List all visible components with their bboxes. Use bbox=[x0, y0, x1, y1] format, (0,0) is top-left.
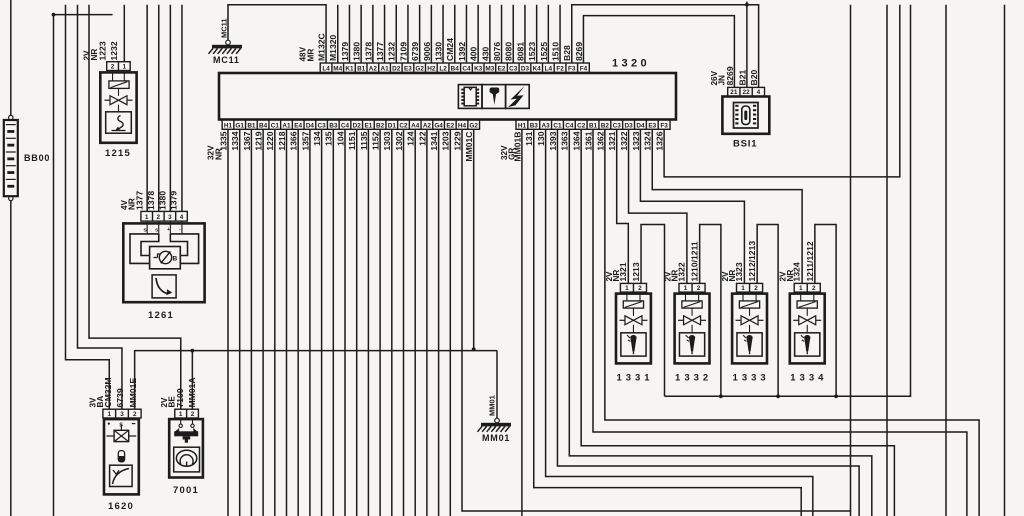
svg-text:2: 2 bbox=[157, 214, 161, 221]
svg-text:1362: 1362 bbox=[595, 131, 605, 150]
svg-text:1323: 1323 bbox=[631, 131, 641, 150]
svg-text:1332: 1332 bbox=[675, 373, 712, 384]
svg-text:7109: 7109 bbox=[398, 42, 408, 61]
svg-text:D3: D3 bbox=[624, 122, 633, 129]
wire 1378 (ECU top pin A2) bbox=[372, 5, 374, 63]
svg-text:1366: 1366 bbox=[289, 131, 299, 150]
svg-text:MM01: MM01 bbox=[488, 395, 497, 416]
svg-text:1: 1 bbox=[684, 285, 688, 292]
wire 6739 (ECU top pin G2) bbox=[419, 5, 421, 63]
svg-text:1357: 1357 bbox=[300, 131, 310, 150]
injector 1333 coil symbol bbox=[739, 301, 759, 308]
svg-text:C3: C3 bbox=[318, 122, 327, 129]
svg-text:1212/1213: 1212/1213 bbox=[747, 241, 757, 282]
svg-text:8269: 8269 bbox=[574, 42, 584, 61]
svg-text:B2: B2 bbox=[376, 122, 385, 129]
svg-text:1211/1212: 1211/1212 bbox=[805, 241, 815, 281]
svg-text:L4: L4 bbox=[545, 66, 553, 73]
svg-text:8269: 8269 bbox=[725, 66, 735, 85]
injector 1331 pin stubs bbox=[626, 292, 628, 301]
svg-text:B21: B21 bbox=[737, 70, 747, 86]
wire 6739 bus (to component 1620 pin 3) bbox=[78, 5, 122, 409]
svg-text:C1: C1 bbox=[271, 122, 280, 129]
svg-text:A2: A2 bbox=[423, 122, 432, 129]
svg-text:G1: G1 bbox=[235, 122, 244, 129]
1620 polarity marks bbox=[108, 423, 110, 425]
svg-text:400: 400 bbox=[469, 46, 479, 61]
svg-text:+: + bbox=[167, 227, 170, 233]
1215 solenoid inner box bbox=[106, 112, 132, 133]
svg-text:4: 4 bbox=[180, 214, 184, 221]
wire 8081 (ECU top pin D3) bbox=[524, 5, 526, 63]
wire bus right C (full height) bbox=[945, 5, 947, 516]
wire CM24 (ECU top pin B4) bbox=[454, 5, 456, 63]
svg-text:A1: A1 bbox=[282, 122, 291, 129]
svg-text:1377: 1377 bbox=[134, 191, 144, 210]
component 1261 connector pins 1 2 3 4 bbox=[141, 211, 187, 221]
svg-text:6739: 6739 bbox=[115, 388, 125, 407]
wire 1357 (to bottom page edge) bbox=[309, 129, 311, 516]
wire 1223 horizontal (bus to component 1215 pin 2) bbox=[54, 14, 113, 16]
svg-text:K1: K1 bbox=[345, 66, 354, 73]
1215 valve symbol bbox=[110, 96, 119, 105]
svg-text:CM24: CM24 bbox=[445, 38, 455, 61]
svg-text:B20: B20 bbox=[749, 70, 759, 86]
svg-text:E3: E3 bbox=[648, 122, 656, 129]
svg-text:M1320: M1320 bbox=[328, 35, 338, 61]
wire 8076 (ECU top pin E2) bbox=[501, 5, 503, 63]
svg-text:1380: 1380 bbox=[352, 42, 362, 61]
wire B28 (ECU pin F3 to BSI1 pins 22/4) bbox=[572, 5, 759, 88]
wire 430 (ECU top pin M3) bbox=[489, 5, 491, 63]
wire 1361 bbox=[593, 129, 967, 516]
wire 1334 (to bottom page edge) bbox=[239, 129, 241, 516]
svg-text:134: 134 bbox=[312, 131, 322, 146]
svg-text:1: 1 bbox=[799, 285, 803, 292]
7001 gauge icon bbox=[176, 450, 196, 466]
svg-text:1364: 1364 bbox=[572, 131, 582, 150]
svg-text:B2: B2 bbox=[601, 122, 610, 129]
svg-text:E3: E3 bbox=[404, 66, 412, 73]
svg-text:2: 2 bbox=[133, 411, 137, 418]
svg-text:2: 2 bbox=[638, 285, 642, 292]
injector 1333 pin stubs bbox=[742, 292, 744, 301]
wire 1203 (to bottom page edge) bbox=[449, 129, 451, 516]
1215 pin stubs bbox=[112, 71, 114, 81]
wire 1135 (to bottom page edge) bbox=[367, 129, 369, 516]
svg-text:B4: B4 bbox=[259, 122, 268, 129]
svg-text:E1: E1 bbox=[364, 122, 372, 129]
wire bus right D (full height) bbox=[1004, 5, 1006, 516]
injector 1333 nozzle spray icon bbox=[746, 335, 752, 351]
svg-text:1223: 1223 bbox=[97, 41, 107, 60]
svg-text:1302: 1302 bbox=[394, 131, 404, 150]
svg-text:7109: 7109 bbox=[175, 388, 185, 407]
svg-text:B: B bbox=[173, 256, 178, 263]
svg-text:E2: E2 bbox=[446, 122, 454, 129]
svg-text:F2: F2 bbox=[556, 66, 564, 73]
svg-text:22: 22 bbox=[743, 89, 751, 96]
svg-text:M3: M3 bbox=[485, 66, 494, 73]
svg-text:1333: 1333 bbox=[733, 373, 770, 384]
svg-text:430: 430 bbox=[480, 46, 490, 61]
injector 1333 valve symbol bbox=[741, 316, 750, 325]
svg-text:1320: 1320 bbox=[612, 58, 650, 70]
component 1215 body (canister purge valve) bbox=[100, 72, 136, 142]
component 7001 connector pins 1 2 bbox=[175, 409, 199, 418]
injector 1332 coil symbol bbox=[682, 301, 702, 308]
wire M1320 (ECU top pin M4) bbox=[337, 5, 339, 63]
svg-text:124: 124 bbox=[406, 131, 416, 146]
svg-text:C3: C3 bbox=[509, 66, 518, 73]
wire 124 (to bottom page edge) bbox=[414, 129, 416, 516]
svg-text:A1: A1 bbox=[380, 66, 389, 73]
svg-text:1331: 1331 bbox=[616, 373, 653, 384]
svg-text:1261: 1261 bbox=[148, 310, 174, 321]
wire 135 (to bottom page edge) bbox=[332, 129, 334, 516]
svg-text:C2: C2 bbox=[399, 122, 408, 129]
wire 1377 (to top page edge) bbox=[146, 5, 148, 212]
1261 throttle icon box bbox=[152, 275, 176, 298]
svg-text:1: 1 bbox=[179, 411, 183, 418]
wire 1212/1213 (injector 1333 pin 2 loop) bbox=[757, 225, 778, 397]
injector 1331 nozzle spray icon bbox=[630, 335, 636, 351]
wire 9006 (ECU top pin H2) bbox=[430, 5, 432, 63]
svg-text:M132C: M132C bbox=[316, 33, 326, 61]
1215 solenoid squiggle icon bbox=[118, 116, 123, 131]
injector 1331 valve symbol bbox=[625, 316, 634, 325]
svg-text:BSI1: BSI1 bbox=[733, 139, 757, 150]
svg-text:1525: 1525 bbox=[539, 42, 549, 61]
svg-text:C3: C3 bbox=[613, 122, 622, 129]
wire 1341 (to bottom page edge) bbox=[438, 129, 440, 516]
wire 1323 (ECU to injector 1333 pin 1) bbox=[640, 129, 744, 283]
wire 1218 (to bottom page edge) bbox=[286, 129, 288, 516]
wire 1379 (ECU top pin K1) bbox=[348, 5, 350, 63]
svg-text:F3: F3 bbox=[568, 66, 576, 73]
wire 1379 (to top page edge) bbox=[181, 5, 183, 212]
svg-text:H1: H1 bbox=[224, 122, 233, 129]
svg-text:2: 2 bbox=[812, 285, 816, 292]
svg-text:1218: 1218 bbox=[277, 131, 287, 150]
svg-text:CM32M: CM32M bbox=[103, 377, 113, 407]
injector 1332 body bbox=[675, 294, 710, 364]
1261 throttle curved-arrow icon bbox=[156, 278, 167, 294]
svg-text:130: 130 bbox=[536, 131, 546, 146]
1215 stem lower bbox=[118, 105, 120, 112]
wire 8269 (ECU pin F4 to BSI1 pin 21) bbox=[583, 16, 734, 88]
svg-text:122: 122 bbox=[417, 131, 427, 146]
svg-text:H2: H2 bbox=[427, 66, 436, 73]
wire 122 (to bottom page edge) bbox=[426, 129, 428, 516]
component 1620 connector pins 1 3 2 bbox=[103, 409, 141, 418]
junction dot injector bus / 1332 bbox=[719, 394, 723, 398]
svg-text:1392: 1392 bbox=[457, 42, 467, 61]
wire 1210/1211 (injector 1332 pin 2 loop) bbox=[700, 225, 721, 397]
wire CM32M bus (to component 1620 pin 1) bbox=[66, 5, 110, 409]
wire 1330 (ECU top pin L2) bbox=[442, 5, 444, 63]
wire 1219 (to bottom page edge) bbox=[262, 129, 264, 516]
svg-text:C4: C4 bbox=[462, 66, 471, 73]
wire 1229 (ECU to bottom-right, runs along page bottom) bbox=[462, 129, 851, 511]
svg-text:1330: 1330 bbox=[433, 42, 443, 61]
1620 capsule element bbox=[118, 451, 124, 462]
svg-text:8081: 8081 bbox=[515, 42, 525, 61]
svg-text:1322: 1322 bbox=[619, 131, 629, 150]
component 1620 body (inlet pressure sensor) bbox=[104, 419, 139, 494]
svg-text:G2: G2 bbox=[415, 66, 424, 73]
svg-text:A2: A2 bbox=[369, 66, 378, 73]
svg-text:F4: F4 bbox=[580, 66, 588, 73]
ECU internal icon: ignition lightning bolt bbox=[506, 85, 530, 109]
svg-text:3: 3 bbox=[168, 214, 172, 221]
svg-text:1135: 1135 bbox=[359, 131, 369, 150]
svg-text:G4: G4 bbox=[434, 122, 443, 129]
injector 1334 nozzle icon box bbox=[795, 333, 820, 356]
wire 1213 (injector 1331 pin 2 loop) bbox=[641, 225, 664, 397]
wire MM01B (to bottom page edge) bbox=[521, 129, 523, 516]
wire 1377 (ECU top pin A1) bbox=[384, 5, 386, 63]
wire MM01 (ground drop) bbox=[496, 351, 498, 419]
svg-text:1210/1211: 1210/1211 bbox=[690, 241, 700, 281]
svg-text:1324: 1324 bbox=[792, 262, 802, 281]
injector 1332 pin stubs bbox=[685, 292, 687, 301]
svg-text:1323: 1323 bbox=[734, 262, 744, 281]
wire BB00 (left page edge vertical) bbox=[10, 0, 12, 115]
svg-text:1378: 1378 bbox=[363, 42, 373, 61]
junction dot 1223 bbox=[52, 13, 56, 17]
svg-text:1: 1 bbox=[107, 411, 111, 418]
svg-text:C2: C2 bbox=[577, 122, 586, 129]
svg-text:1321: 1321 bbox=[607, 131, 617, 150]
junction dot MM01A bbox=[190, 349, 194, 353]
svg-text:8076: 8076 bbox=[492, 42, 502, 61]
7001 piezo element symbol bbox=[174, 418, 198, 443]
svg-text:1321: 1321 bbox=[618, 262, 628, 281]
svg-text:1152: 1152 bbox=[371, 131, 381, 150]
BSI1 body bbox=[722, 97, 769, 134]
injector 1334 valve symbol bbox=[799, 316, 808, 325]
svg-text:D1: D1 bbox=[388, 122, 397, 129]
svg-text:D2: D2 bbox=[353, 122, 362, 129]
1215 coil symbol bbox=[109, 81, 129, 89]
svg-text:131: 131 bbox=[524, 131, 534, 146]
wire 8080 (ECU top pin C3) bbox=[512, 5, 514, 63]
wire 1510 (ECU top pin F2) bbox=[559, 5, 561, 63]
wire 1363 bbox=[569, 129, 872, 516]
component 7001 body (knock sensor) bbox=[169, 419, 203, 477]
svg-text:1322: 1322 bbox=[677, 262, 687, 281]
injector 1331 nozzle icon box bbox=[621, 333, 646, 356]
wire 1151 (to bottom page edge) bbox=[356, 129, 358, 516]
svg-text:21: 21 bbox=[730, 89, 738, 96]
7001 gauge icon box bbox=[174, 447, 200, 472]
svg-text:1232: 1232 bbox=[387, 42, 397, 61]
svg-text:135: 135 bbox=[324, 131, 334, 146]
junction dot injector bus / 1334 bbox=[834, 394, 838, 398]
wire 1326 (ECU to top-right page edge) bbox=[664, 5, 900, 177]
svg-text:A3: A3 bbox=[542, 122, 551, 129]
svg-text:1203: 1203 bbox=[441, 131, 451, 150]
svg-text:1215: 1215 bbox=[105, 148, 131, 159]
ECU bottom-left connector pin row bbox=[222, 120, 479, 130]
wire 7109 (ECU top pin E3) bbox=[407, 5, 409, 63]
BSI1 connector pins 21 22 4 bbox=[728, 87, 765, 96]
svg-text:1232: 1232 bbox=[109, 41, 119, 60]
svg-text:1151: 1151 bbox=[347, 131, 357, 150]
svg-text:1334: 1334 bbox=[230, 131, 240, 150]
svg-text:B1: B1 bbox=[589, 122, 598, 129]
injector 1334 nozzle spray icon bbox=[804, 335, 810, 351]
svg-text:MM01: MM01 bbox=[482, 433, 510, 443]
svg-text:8080: 8080 bbox=[504, 42, 514, 61]
wire 1302 (to bottom page edge) bbox=[403, 129, 405, 516]
injector 1332 nozzle icon box bbox=[679, 333, 704, 356]
svg-text:B1: B1 bbox=[357, 66, 366, 73]
svg-text:1393: 1393 bbox=[548, 131, 558, 150]
1620 pressure curve icon bbox=[113, 469, 130, 485]
svg-text:BB00: BB00 bbox=[24, 153, 50, 163]
junction dot injector bus / 1333 bbox=[776, 394, 780, 398]
svg-text:M4: M4 bbox=[333, 66, 342, 73]
wire 1303 (to bottom page edge) bbox=[391, 129, 393, 516]
svg-text:1324: 1324 bbox=[643, 131, 653, 150]
svg-text:H4: H4 bbox=[458, 122, 467, 129]
svg-text:MM01B: MM01B bbox=[512, 132, 522, 162]
svg-text:2: 2 bbox=[191, 411, 195, 418]
svg-text:1334: 1334 bbox=[790, 373, 827, 384]
component 1215 connector pins 2 1 bbox=[107, 62, 131, 71]
svg-text:1: 1 bbox=[625, 285, 629, 292]
wire 1322 (ECU to injector 1332 pin 1) bbox=[629, 129, 687, 283]
wire 1324 (ECU to injector 1334 pin 1) bbox=[652, 129, 802, 283]
svg-text:C4: C4 bbox=[341, 122, 350, 129]
svg-text:E2: E2 bbox=[498, 66, 506, 73]
injector 1331 body bbox=[616, 294, 651, 364]
svg-text:MC11: MC11 bbox=[213, 55, 240, 65]
wire MM01C (ECU ground wire to MM01 net) bbox=[473, 129, 475, 349]
wire 1380 (ECU top pin B1) bbox=[360, 5, 362, 63]
svg-text:1213: 1213 bbox=[631, 262, 641, 281]
1261 motor symbol (circle with slash) bbox=[159, 251, 171, 263]
1215 stem bbox=[118, 88, 120, 95]
svg-text:1: 1 bbox=[145, 214, 149, 221]
svg-text:1523: 1523 bbox=[527, 42, 537, 61]
svg-text:1510: 1510 bbox=[550, 42, 560, 61]
svg-text:2: 2 bbox=[754, 285, 758, 292]
wire 1211/1212 (injector 1334 pin 2 loop) bbox=[815, 225, 836, 397]
component 1261 body (idle stepper motor) bbox=[123, 223, 204, 302]
wire 104 (to bottom page edge) bbox=[344, 129, 346, 516]
svg-text:D2: D2 bbox=[392, 66, 401, 73]
1620 X-sensor symbol bbox=[107, 425, 137, 442]
wire 130 bbox=[546, 129, 813, 516]
wire MM01A (7001 pin 2 branch) bbox=[191, 351, 193, 410]
wire B28 branch (BSI1 pin 22) bbox=[746, 2, 748, 88]
svg-text:G2: G2 bbox=[469, 122, 478, 129]
svg-text:4: 4 bbox=[757, 89, 761, 96]
ECU internal icon: injector bbox=[482, 85, 506, 109]
injector 1333 body bbox=[732, 294, 767, 364]
svg-text:MM01A: MM01A bbox=[187, 377, 197, 407]
ground MM01 symbol bbox=[495, 418, 500, 423]
wire bus right A (full height) bbox=[850, 5, 852, 516]
wire 1378 (to top page edge) bbox=[158, 5, 160, 212]
wire 7109 bus (to component 7001 pin 1) bbox=[89, 5, 181, 409]
svg-text:C1: C1 bbox=[553, 122, 562, 129]
1261 pin stubs into motor bbox=[146, 221, 148, 234]
svg-text:6739: 6739 bbox=[410, 42, 420, 61]
wire M132C (ECU pin L4 to ground MC11) bbox=[228, 5, 326, 63]
svg-text:D3: D3 bbox=[521, 66, 530, 73]
wire injector return bus (to top page edge) bbox=[665, 5, 911, 397]
svg-text:K3: K3 bbox=[474, 66, 483, 73]
svg-text:1: 1 bbox=[123, 64, 127, 71]
svg-text:7001: 7001 bbox=[173, 485, 199, 496]
wire 1232 (to top page edge) bbox=[123, 5, 125, 62]
svg-text:H1: H1 bbox=[518, 122, 527, 129]
wire MM01E (component 1620 pin 2 to ground line) bbox=[135, 351, 497, 410]
svg-text:2: 2 bbox=[697, 285, 701, 292]
svg-text:MM01C: MM01C bbox=[464, 132, 474, 162]
svg-text:L2: L2 bbox=[439, 66, 447, 73]
wire 400 (ECU top pin K3) bbox=[477, 5, 479, 63]
svg-text:1377: 1377 bbox=[375, 42, 385, 61]
svg-text:104: 104 bbox=[335, 131, 345, 146]
wire 1321 (ECU to injector 1331 pin 1) bbox=[617, 129, 629, 283]
svg-text:B1: B1 bbox=[247, 122, 256, 129]
svg-text:1367: 1367 bbox=[242, 131, 252, 150]
wire bus right B (full height) bbox=[886, 5, 888, 516]
svg-text:2: 2 bbox=[111, 64, 115, 71]
svg-text:9006: 9006 bbox=[422, 42, 432, 61]
svg-text:1335: 1335 bbox=[218, 131, 228, 150]
svg-text:1363: 1363 bbox=[560, 131, 570, 150]
svg-text:1620: 1620 bbox=[108, 501, 134, 512]
injector 1334 pin stubs bbox=[800, 292, 802, 301]
wire 1335 (to bottom page edge) bbox=[227, 129, 229, 516]
svg-text:B4: B4 bbox=[451, 66, 460, 73]
svg-text:-: - bbox=[179, 227, 181, 233]
ECU top connector pin row (pins L4..F4) bbox=[320, 63, 589, 73]
svg-text:B3: B3 bbox=[329, 122, 338, 129]
wire 1523 (ECU top pin K4) bbox=[536, 5, 538, 63]
wire 1364 bbox=[581, 129, 894, 516]
ground MC11 symbol bbox=[226, 40, 231, 45]
wire 131 bbox=[534, 129, 801, 516]
injector 1333 nozzle icon box bbox=[737, 333, 762, 356]
wire 1223 bus (left vertical, full height) bbox=[53, 15, 55, 516]
ECU internal icon: microprocessor chip bbox=[458, 85, 482, 109]
svg-text:K4: K4 bbox=[533, 66, 542, 73]
svg-text:1: 1 bbox=[741, 285, 745, 292]
svg-text:1361: 1361 bbox=[583, 131, 593, 150]
wire 1220 (to bottom page edge) bbox=[274, 129, 276, 516]
svg-text:E4: E4 bbox=[294, 122, 302, 129]
injector 1331 coil symbol bbox=[623, 301, 643, 308]
svg-text:B28: B28 bbox=[562, 45, 572, 61]
svg-text:1379: 1379 bbox=[340, 42, 350, 61]
svg-text:A4: A4 bbox=[411, 122, 420, 129]
wire 1525 (ECU top pin L4) bbox=[547, 5, 549, 63]
ECU control unit U1320 body bbox=[219, 73, 676, 120]
wire 1366 (to bottom page edge) bbox=[297, 129, 299, 516]
svg-text:1303: 1303 bbox=[382, 131, 392, 150]
1261 motor inner box bbox=[150, 247, 181, 269]
wire 1362 bbox=[605, 129, 979, 516]
svg-text:L4: L4 bbox=[322, 66, 330, 73]
svg-text:1229: 1229 bbox=[452, 131, 462, 150]
